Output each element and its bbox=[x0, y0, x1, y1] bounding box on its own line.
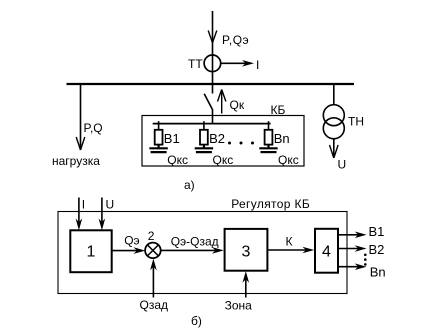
arrow input I bbox=[76, 198, 83, 231]
capacitor Cn bbox=[259, 145, 277, 153]
svg-text:U: U bbox=[106, 198, 115, 212]
svg-text:В1: В1 bbox=[164, 131, 180, 146]
capacitor C1 bbox=[149, 145, 167, 153]
arrow load down bbox=[76, 137, 85, 150]
svg-text:б): б) bbox=[191, 314, 202, 328]
svg-text:Qк: Qк bbox=[230, 98, 245, 112]
svg-text:ТТ: ТТ bbox=[188, 57, 203, 71]
wire branch B1 bbox=[158, 121, 160, 130]
dots ellipsis vertical bbox=[364, 254, 367, 266]
svg-text:а): а) bbox=[184, 178, 195, 192]
arrow output B2 bbox=[338, 245, 367, 252]
arrow P,Qэ down bbox=[208, 31, 217, 43]
svg-text:4: 4 bbox=[322, 244, 331, 261]
transformer TT circle bbox=[204, 55, 221, 72]
wire internal bus bbox=[153, 123, 271, 125]
arrow input Зона bbox=[243, 271, 250, 297]
arrow Qk up bbox=[218, 90, 226, 114]
svg-text:В2: В2 bbox=[369, 242, 385, 257]
svg-text:Qэ: Qэ bbox=[124, 234, 139, 248]
arrow I bbox=[221, 60, 254, 67]
arrow input U bbox=[99, 198, 106, 231]
box capacitor bank KB bbox=[142, 116, 304, 167]
dots ellipsis horizontal bbox=[228, 142, 254, 145]
svg-text:2: 2 bbox=[148, 229, 155, 243]
arrow Qэ bbox=[112, 247, 146, 254]
arrow input Qзад bbox=[150, 259, 157, 298]
breaker Bn bbox=[265, 130, 273, 145]
arrow U down bbox=[330, 139, 339, 158]
block 1 bbox=[70, 230, 111, 272]
block 4 bbox=[315, 229, 338, 273]
box regulator bbox=[58, 212, 347, 294]
svg-text:Qзад: Qзад bbox=[140, 298, 169, 312]
wire TH branch bbox=[333, 84, 335, 105]
wire feeder vertical bbox=[212, 11, 214, 84]
svg-text:Зона: Зона bbox=[225, 299, 253, 313]
arrow Qэ-Qзад bbox=[161, 247, 224, 254]
svg-text:К: К bbox=[286, 235, 293, 249]
svg-text:I: I bbox=[82, 198, 85, 212]
svg-text:Вn: Вn bbox=[274, 131, 290, 146]
svg-text:Qкс: Qкс bbox=[213, 153, 234, 167]
svg-text:Qкс: Qкс bbox=[278, 153, 299, 167]
switch Qk bbox=[204, 84, 213, 124]
svg-text:Вn: Вn bbox=[370, 264, 386, 279]
svg-text:P,Qэ: P,Qэ bbox=[222, 33, 249, 47]
svg-text:Qэ-Qзад: Qэ-Qзад bbox=[171, 235, 219, 249]
block 3 bbox=[225, 229, 268, 271]
svg-text:В2: В2 bbox=[209, 131, 225, 146]
arrow K bbox=[267, 247, 314, 254]
arrow output Bn bbox=[338, 263, 367, 270]
svg-text:1: 1 bbox=[87, 244, 96, 261]
svg-text:I: I bbox=[256, 58, 259, 72]
breaker B1 bbox=[155, 130, 163, 145]
svg-text:Регулятор КБ: Регулятор КБ bbox=[231, 197, 310, 211]
transformer TH bbox=[323, 105, 344, 139]
svg-text:нагрузка: нагрузка bbox=[52, 154, 100, 168]
wire branch Bn bbox=[268, 121, 270, 130]
summer circle 2 bbox=[145, 243, 161, 259]
svg-text:ТН: ТН bbox=[348, 115, 364, 129]
breaker B2 bbox=[200, 130, 208, 145]
arrow output B1 bbox=[338, 232, 367, 239]
wire branch B2 bbox=[203, 121, 205, 130]
capacitor C2 bbox=[195, 145, 213, 153]
svg-text:Qкс: Qкс bbox=[167, 153, 188, 167]
svg-text:U: U bbox=[338, 158, 347, 172]
wire load branch bbox=[80, 84, 82, 150]
svg-text:P,Q: P,Q bbox=[84, 121, 103, 135]
svg-text:В1: В1 bbox=[369, 224, 385, 239]
wire bus horizontal bbox=[67, 83, 355, 85]
svg-text:3: 3 bbox=[242, 244, 251, 261]
